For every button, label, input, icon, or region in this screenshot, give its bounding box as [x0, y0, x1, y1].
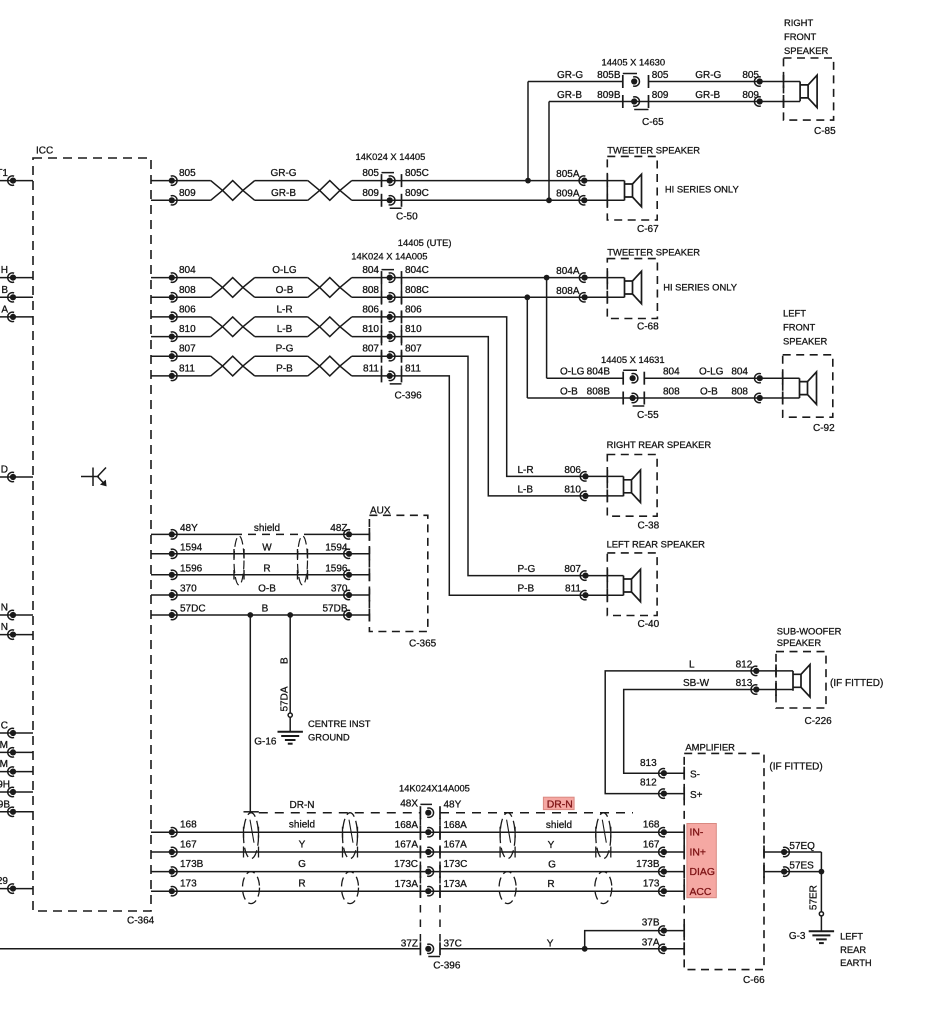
wire 173B G from ICC to amplifier DIAG: [151, 859, 684, 876]
svg-text:804: 804: [179, 265, 196, 276]
svg-text:809: 809: [742, 90, 759, 101]
svg-text:805: 805: [179, 168, 196, 179]
highlighted DR-N label: [543, 797, 574, 810]
svg-text:GR-B: GR-B: [695, 90, 720, 101]
svg-text:TWEETER SPEAKER: TWEETER SPEAKER: [607, 247, 700, 258]
svg-text:C-67: C-67: [637, 224, 659, 235]
svg-text:ACC: ACC: [690, 887, 712, 898]
svg-text:808: 808: [179, 285, 196, 296]
svg-text:14405 X 14630: 14405 X 14630: [602, 56, 666, 67]
svg-text:14K024X14A005: 14K024X14A005: [399, 783, 470, 794]
svg-text:N: N: [1, 603, 8, 614]
tweeter speaker box C-68: [607, 247, 737, 333]
svg-text:48Y: 48Y: [180, 523, 198, 534]
svg-text:37B: 37B: [642, 917, 660, 928]
svg-text:SPEAKER: SPEAKER: [783, 336, 828, 347]
svg-text:SPEAKER: SPEAKER: [777, 637, 822, 648]
connector C-65: [602, 56, 666, 128]
labels C-65 wires: [557, 70, 759, 101]
wire 806 L-R from ICC through twists to C-396 then down to C-38: [151, 312, 624, 476]
svg-text:173C: 173C: [394, 859, 418, 870]
svg-text:809: 809: [652, 90, 669, 101]
speaker symbol C-38: [624, 470, 641, 502]
svg-text:804C: 804C: [405, 265, 429, 276]
svg-text:48Z: 48Z: [330, 523, 347, 534]
svg-text:167: 167: [180, 840, 197, 851]
svg-text:810: 810: [564, 484, 581, 495]
svg-text:57DC: 57DC: [180, 604, 206, 615]
svg-text:808C: 808C: [405, 285, 429, 296]
svg-text:173: 173: [180, 879, 197, 890]
connector C-396 upper: [351, 237, 451, 401]
svg-text:C-50: C-50: [396, 212, 418, 223]
svg-text:168: 168: [643, 820, 660, 831]
svg-text:HI SERIES ONLY: HI SERIES ONLY: [665, 184, 740, 195]
svg-text:RIGHT: RIGHT: [784, 17, 813, 28]
antenna symbol inside ICC: [81, 468, 107, 487]
svg-text:809B: 809B: [597, 90, 621, 101]
svg-text:C-226: C-226: [805, 716, 833, 727]
svg-text:L: L: [689, 660, 695, 671]
wire 1596 R to AUX: [151, 570, 369, 579]
wire L 812 subwoofer to amplifier S+: [605, 660, 793, 799]
svg-text:173B: 173B: [636, 859, 660, 870]
wire 37Z/37C Y long run to amplifier 37A: [0, 937, 684, 953]
svg-text:168: 168: [180, 820, 197, 831]
wire 808 C-55 to left front speaker: [644, 393, 799, 402]
wire 805 GR-G from ICC through twists to C-50 and on to C-67: [151, 176, 625, 185]
svg-text:B: B: [280, 657, 291, 664]
svg-text:14K024 X 14A005: 14K024 X 14A005: [351, 250, 427, 261]
svg-text:167: 167: [643, 839, 660, 850]
svg-text:R: R: [298, 879, 305, 890]
svg-text:173B: 173B: [180, 859, 204, 870]
svg-text:173A: 173A: [395, 879, 419, 890]
svg-text:809C: 809C: [405, 188, 429, 199]
svg-text:R: R: [263, 563, 270, 574]
svg-text:804A: 804A: [556, 266, 580, 277]
svg-text:167A: 167A: [444, 840, 468, 851]
svg-text:805B: 805B: [597, 70, 621, 81]
svg-text:O-LG: O-LG: [560, 367, 585, 378]
svg-text:C-85: C-85: [814, 126, 836, 137]
ICC module box C-364: [33, 146, 155, 927]
svg-text:P-B: P-B: [518, 584, 535, 595]
svg-text:806: 806: [405, 304, 422, 315]
svg-text:370: 370: [331, 584, 348, 595]
svg-text:804: 804: [362, 265, 379, 276]
svg-text:1596: 1596: [325, 563, 348, 574]
svg-text:FRONT: FRONT: [784, 31, 817, 42]
tweeter speaker box C-67: [607, 145, 739, 236]
svg-text:808: 808: [731, 387, 748, 398]
terminals and labels at C-40: [518, 564, 589, 600]
svg-text:ICC: ICC: [36, 146, 53, 157]
svg-text:29: 29: [0, 876, 8, 887]
svg-text:811: 811: [565, 584, 581, 595]
svg-text:804B: 804B: [587, 367, 611, 378]
labels group 804-811: [179, 265, 429, 374]
svg-text:AMPLIFIER: AMPLIFIER: [685, 742, 735, 753]
svg-text:LEFT: LEFT: [783, 308, 806, 319]
wire 808 O-B from ICC through twists to C-396 on to C-68: [151, 293, 625, 302]
shield drain wire DR-N (dashed): [259, 799, 633, 813]
amplifier box C-66: [684, 742, 823, 987]
AUX box C-365: [369, 506, 436, 650]
svg-text:811: 811: [405, 363, 421, 374]
svg-text:W: W: [262, 542, 272, 553]
svg-text:L-R: L-R: [518, 465, 534, 476]
wire 809 GR-B from ICC through twists to C-50 and on to C-67: [151, 196, 625, 205]
svg-text:HI SERIES ONLY: HI SERIES ONLY: [663, 282, 738, 293]
svg-text:C-55: C-55: [637, 410, 659, 421]
svg-text:G: G: [298, 859, 306, 870]
svg-text:IN+: IN+: [690, 848, 706, 859]
svg-text:810: 810: [362, 324, 379, 335]
svg-text:29B: 29B: [0, 799, 10, 810]
svg-text:57ER: 57ER: [809, 885, 820, 910]
svg-text:809: 809: [179, 188, 196, 199]
svg-text:807: 807: [362, 344, 379, 355]
junction node 37 branch to 37B: [582, 917, 684, 951]
svg-text:14405 X 14631: 14405 X 14631: [601, 354, 665, 365]
svg-text:807: 807: [179, 344, 196, 355]
twisted pair symbols 804/808: [211, 278, 255, 298]
svg-text:G-16: G-16: [254, 737, 277, 748]
terminal 808A at C-68: [556, 286, 588, 302]
svg-text:T1: T1: [0, 168, 8, 179]
wire 48Y shield drain to AUX: [151, 530, 369, 539]
svg-text:370: 370: [180, 584, 197, 595]
svg-text:O-B: O-B: [276, 285, 294, 296]
svg-text:1596: 1596: [180, 563, 203, 574]
svg-text:DR-N: DR-N: [547, 799, 573, 810]
svg-text:M: M: [0, 759, 8, 770]
svg-text:RIGHT REAR SPEAKER: RIGHT REAR SPEAKER: [607, 439, 712, 450]
svg-text:57ES: 57ES: [789, 861, 814, 872]
svg-text:G-3: G-3: [789, 931, 806, 942]
svg-text:173: 173: [643, 879, 660, 890]
svg-text:O-B: O-B: [560, 387, 578, 398]
junction node 57DC drop to bottom shield: [244, 612, 259, 812]
connector C-396 lower: [399, 783, 470, 972]
svg-text:R: R: [547, 879, 554, 890]
svg-text:GR-G: GR-G: [695, 70, 721, 81]
left front speaker box C-92: [783, 308, 835, 435]
svg-text:29H: 29H: [0, 780, 10, 791]
svg-text:L-B: L-B: [277, 324, 293, 335]
svg-text:811: 811: [363, 363, 379, 374]
junction node 809 to C-65 riser: [546, 102, 552, 204]
svg-text:173A: 173A: [444, 879, 468, 890]
svg-text:GR-B: GR-B: [557, 90, 582, 101]
svg-text:Y: Y: [548, 840, 555, 851]
svg-text:C-92: C-92: [813, 423, 835, 434]
svg-text:806: 806: [564, 465, 581, 476]
shield loop symbols on amplifier feed: [244, 813, 259, 859]
svg-text:shield: shield: [289, 820, 315, 831]
wire 1594 W to AUX: [151, 549, 369, 558]
svg-text:37C: 37C: [444, 939, 462, 950]
svg-text:FRONT: FRONT: [783, 322, 816, 333]
svg-text:812: 812: [640, 777, 657, 788]
svg-text:P-B: P-B: [276, 363, 293, 374]
left edge pin terminals: [8, 176, 16, 893]
labels C-55 wires: [560, 367, 748, 398]
svg-text:N: N: [1, 622, 8, 633]
wire 804 C-55 to left front speaker: [644, 374, 799, 383]
svg-text:808A: 808A: [556, 286, 580, 297]
svg-text:Y: Y: [299, 840, 306, 851]
wire 57ES from amplifier: [764, 861, 821, 877]
svg-text:O-LG: O-LG: [699, 367, 724, 378]
wire 809 C-65 to right front speaker: [649, 97, 801, 106]
svg-text:DIAG: DIAG: [690, 867, 715, 878]
wire 168 shielded from ICC to amplifier IN-: [151, 820, 684, 837]
svg-text:G: G: [548, 860, 556, 871]
left edge circuit labels (clipped at page edge): [0, 168, 10, 887]
speaker symbol C-92: [800, 372, 817, 404]
wire SB-W 813 subwoofer to amplifier S-: [624, 678, 793, 778]
svg-text:806: 806: [179, 304, 196, 315]
svg-text:807: 807: [564, 564, 581, 575]
svg-text:M: M: [0, 740, 8, 751]
amplifier pin highlight box: [687, 824, 716, 898]
wire 167 Y from ICC to amplifier IN+: [151, 839, 684, 856]
svg-text:48X: 48X: [400, 799, 418, 810]
terminals and labels at C-38: [518, 465, 589, 501]
speaker symbol C-68: [625, 271, 642, 303]
svg-text:L-R: L-R: [276, 304, 292, 315]
svg-text:809: 809: [362, 188, 379, 199]
twisted pair symbols 805/809: [211, 181, 255, 201]
svg-text:57DB: 57DB: [322, 604, 347, 615]
wire 810 L-B from ICC through twists to C-396 then down to C-38: [151, 332, 624, 496]
svg-text:805: 805: [362, 168, 379, 179]
svg-text:812: 812: [736, 660, 753, 671]
svg-text:C-396: C-396: [395, 390, 423, 401]
svg-text:C-40: C-40: [638, 619, 660, 630]
svg-text:805A: 805A: [556, 169, 580, 180]
svg-text:805: 805: [742, 70, 759, 81]
wire 809B to connector C-65: [549, 101, 649, 103]
junction node 804 to C-55 drop: [544, 275, 624, 379]
svg-text:SUB-WOOFER: SUB-WOOFER: [777, 626, 842, 637]
svg-text:1594: 1594: [180, 542, 203, 553]
wire 805 C-65 to right front speaker: [649, 77, 801, 86]
svg-text:shield: shield: [546, 820, 572, 831]
svg-text:IN-: IN-: [690, 827, 704, 838]
svg-text:57EQ: 57EQ: [789, 841, 815, 852]
svg-text:P-G: P-G: [276, 344, 294, 355]
svg-text:P-G: P-G: [518, 564, 536, 575]
svg-text:DR-N: DR-N: [290, 800, 315, 811]
wire 57DC B to AUX: [151, 610, 369, 619]
svg-text:805: 805: [652, 70, 669, 81]
speaker symbol C-226: [793, 665, 810, 697]
svg-text:37A: 37A: [642, 937, 660, 948]
svg-text:167A: 167A: [395, 840, 419, 851]
svg-text:(IF FITTED): (IF FITTED): [830, 678, 883, 689]
svg-text:TWEETER SPEAKER: TWEETER SPEAKER: [607, 145, 700, 156]
svg-text:806: 806: [362, 304, 379, 315]
svg-text:A: A: [1, 304, 8, 315]
svg-text:810: 810: [405, 324, 422, 335]
terminal 805A at C-67: [556, 169, 587, 185]
twisted pair symbols 807/811: [211, 356, 255, 376]
svg-text:808B: 808B: [587, 387, 611, 398]
shield loop symbols on AUX pair: [234, 536, 244, 585]
ground G-16: [254, 713, 371, 748]
right rear speaker box C-38: [607, 439, 712, 531]
svg-text:C-364: C-364: [127, 916, 155, 927]
labels pair 805/809: [179, 168, 429, 199]
svg-text:GR-G: GR-G: [270, 168, 296, 179]
speaker symbol C-67: [625, 174, 642, 206]
connector C-50: [356, 151, 426, 222]
junction node 57ER to ground: [819, 852, 825, 912]
speaker symbol C-85: [800, 75, 817, 107]
wire 811 P-B from ICC through twists to C-396 then down to C-40: [151, 371, 624, 595]
svg-text:C-365: C-365: [409, 638, 437, 649]
svg-text:37Z: 37Z: [401, 938, 418, 949]
terminal 809A at C-67: [556, 189, 587, 205]
svg-text:1594: 1594: [325, 542, 348, 553]
svg-text:SPEAKER: SPEAKER: [784, 45, 829, 56]
speaker symbol C-40: [624, 569, 641, 601]
svg-text:D: D: [1, 465, 8, 476]
wire 370 O-B to AUX: [151, 590, 369, 599]
svg-text:H: H: [1, 265, 8, 276]
svg-text:804: 804: [731, 367, 748, 378]
svg-text:L-B: L-B: [518, 484, 534, 495]
svg-text:LEFT REAR SPEAKER: LEFT REAR SPEAKER: [607, 539, 706, 550]
svg-text:GR-G: GR-G: [557, 70, 583, 81]
svg-text:168A: 168A: [395, 820, 419, 831]
svg-text:807: 807: [405, 344, 422, 355]
svg-text:B: B: [1, 285, 8, 296]
wire 804 O-LG from ICC through twists to C-396 on to C-68: [151, 273, 625, 282]
svg-text:C-68: C-68: [637, 322, 659, 333]
svg-text:808: 808: [362, 285, 379, 296]
svg-text:808: 808: [663, 387, 680, 398]
svg-text:813: 813: [640, 758, 657, 769]
svg-text:S-: S-: [690, 770, 700, 781]
left edge stub wires into ICC: [0, 181, 33, 889]
svg-text:809A: 809A: [556, 189, 580, 200]
terminal 804A at C-68: [556, 266, 588, 282]
svg-text:C: C: [1, 721, 8, 732]
svg-text:SB-W: SB-W: [683, 678, 710, 689]
junction node 805 to C-65 riser: [525, 82, 531, 184]
svg-text:C-38: C-38: [638, 521, 660, 532]
svg-text:shield: shield: [254, 523, 280, 534]
wire 807 P-G from ICC through twists to C-396 then down to C-40: [151, 352, 624, 576]
sub-woofer speaker box C-226: [776, 626, 883, 728]
svg-text:REAR: REAR: [840, 944, 866, 955]
svg-text:805C: 805C: [405, 168, 429, 179]
wire 173 R from ICC to amplifier ACC: [151, 879, 684, 896]
svg-text:S+: S+: [690, 790, 703, 801]
svg-text:14405 (UTE): 14405 (UTE): [398, 237, 452, 248]
labels AUX wires: [180, 523, 348, 615]
svg-text:O-B: O-B: [700, 387, 718, 398]
svg-text:GROUND: GROUND: [308, 732, 350, 743]
svg-text:GR-B: GR-B: [271, 188, 296, 199]
svg-text:57DA: 57DA: [280, 686, 291, 711]
svg-text:813: 813: [736, 678, 753, 689]
wire 805B to connector C-65: [528, 81, 623, 83]
svg-text:810: 810: [179, 324, 196, 335]
svg-text:(IF FITTED): (IF FITTED): [769, 762, 822, 773]
wire 57EQ from amplifier: [764, 841, 821, 857]
svg-text:LEFT: LEFT: [840, 931, 863, 942]
svg-text:173C: 173C: [444, 859, 468, 870]
svg-text:811: 811: [179, 363, 195, 374]
right front speaker box C-85: [784, 17, 837, 137]
svg-text:C-66: C-66: [743, 975, 765, 986]
svg-text:804: 804: [663, 367, 680, 378]
svg-text:14K024 X 14405: 14K024 X 14405: [356, 151, 426, 162]
junction node 808 to C-55 drop: [524, 294, 644, 398]
left rear speaker box C-40: [607, 539, 706, 631]
svg-text:CENTRE INST: CENTRE INST: [308, 718, 371, 729]
svg-text:Y: Y: [547, 939, 554, 950]
svg-text:168A: 168A: [444, 820, 468, 831]
svg-text:O-LG: O-LG: [272, 265, 297, 276]
svg-text:48Y: 48Y: [444, 799, 462, 810]
connector C-55: [601, 354, 665, 421]
ground G-3: [789, 912, 872, 969]
svg-text:O-B: O-B: [258, 584, 276, 595]
svg-text:C-65: C-65: [642, 117, 664, 128]
junction node 57DA drop to G-16 ground: [287, 612, 293, 713]
svg-text:B: B: [262, 604, 269, 615]
twisted pair symbols 806/810: [211, 317, 255, 337]
svg-text:C-396: C-396: [433, 960, 461, 971]
svg-text:EARTH: EARTH: [840, 957, 872, 968]
